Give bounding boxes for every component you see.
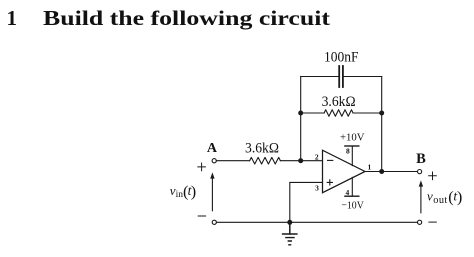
pin 8 wire to +10V rail xyxy=(351,146,353,166)
+10V supply bar xyxy=(345,145,359,147)
svg-text:1: 1 xyxy=(368,162,372,171)
minus sign of vout xyxy=(429,221,436,223)
svg-text:+10V: +10V xyxy=(340,132,365,144)
plus sign of vout xyxy=(429,172,437,180)
junction dot at ground node xyxy=(287,220,292,225)
svg-text:A: A xyxy=(207,141,218,156)
svg-text:B: B xyxy=(416,151,426,167)
plus sign of vin xyxy=(198,163,206,171)
wire: left vertical of feedback loop xyxy=(300,77,302,161)
svg-text:4: 4 xyxy=(346,188,350,197)
wire R1 to op-amp pin 2 xyxy=(280,160,322,162)
wire R2 to right vertical xyxy=(353,112,382,114)
minus sign of vin xyxy=(198,215,205,217)
inverting input minus sign xyxy=(328,159,333,161)
wire op-amp output to terminal B xyxy=(365,171,417,173)
wire: capacitor to top right xyxy=(343,76,382,78)
wire A to R1 xyxy=(216,160,249,162)
wire: right vertical of feedback loop xyxy=(381,77,383,172)
non-inverting input plus sign xyxy=(327,180,332,185)
heading: section title xyxy=(7,6,331,30)
bottom return wire xyxy=(216,221,417,223)
svg-text:100nF: 100nF xyxy=(324,50,359,66)
resistor R1 3.6k (input) xyxy=(250,157,281,164)
svg-text:−10V: −10V xyxy=(341,200,364,212)
terminal B (open circle) xyxy=(418,170,422,174)
resistor R2 3.6k (feedback) xyxy=(324,110,353,117)
svg-text:vin(t): vin(t) xyxy=(170,182,196,201)
svg-text:3: 3 xyxy=(315,183,319,192)
svg-text:3.6kΩ: 3.6kΩ xyxy=(322,94,356,110)
junction node at inverting input xyxy=(298,158,303,163)
svg-text:8: 8 xyxy=(346,146,350,155)
vin(t) reference arrow xyxy=(211,178,213,211)
wire op-amp pin 3 to ground xyxy=(290,182,323,222)
junction dot at output node xyxy=(379,169,384,174)
svg-text:1: 1 xyxy=(7,6,18,30)
junction dot left of R2 xyxy=(298,111,303,116)
op-amp U1 triangle xyxy=(323,150,366,193)
terminal vin negative (open circle) xyxy=(212,220,216,224)
svg-text:2: 2 xyxy=(315,153,319,162)
-10V supply bar xyxy=(345,195,359,197)
junction dot right of R2 xyxy=(379,111,384,116)
svg-text:Build the following circuit: Build the following circuit xyxy=(43,6,330,30)
capacitor C1 plates xyxy=(339,66,343,87)
wire: junction to feedback resistor xyxy=(301,112,324,114)
terminal A (open circle) xyxy=(212,159,216,163)
vout(t) reference arrow xyxy=(420,186,422,213)
wire: top left to capacitor xyxy=(301,76,339,78)
terminal vout negative (open circle) xyxy=(418,220,422,224)
svg-text:vout(t): vout(t) xyxy=(427,187,463,206)
svg-text:3.6kΩ: 3.6kΩ xyxy=(245,141,279,157)
ground symbol xyxy=(289,222,291,234)
pin 4 wire to -10V rail xyxy=(351,177,353,196)
